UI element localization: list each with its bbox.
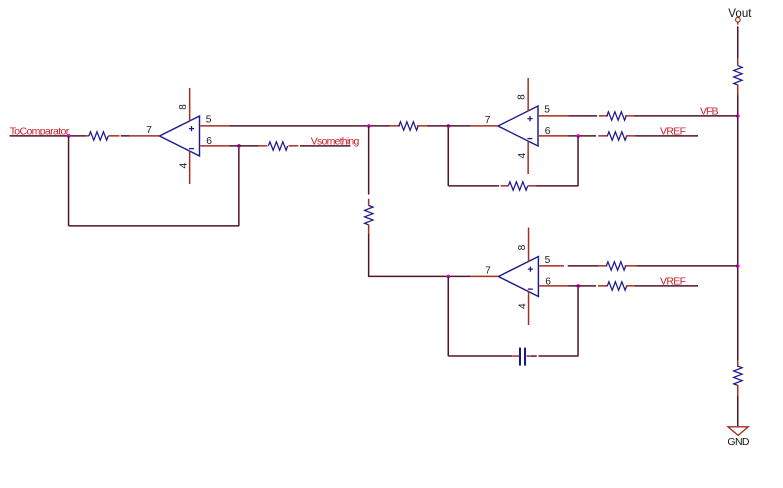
pin 8 power pin — [528, 228, 530, 262]
ground GND — [727, 427, 750, 448]
plus mark — [528, 267, 533, 272]
resistor R5 — [599, 112, 634, 120]
resistor R3 — [390, 122, 427, 130]
pin 5 stub — [539, 265, 564, 267]
wire R10 to pin5 junction — [637, 265, 738, 267]
wire VFB row right segment — [634, 115, 738, 117]
junction U2 pin6 feedback node — [576, 134, 580, 138]
svg-text:7: 7 — [485, 115, 491, 126]
minus mark — [189, 148, 194, 150]
wire U1 feedback bottom rail — [69, 225, 239, 227]
svg-text:4: 4 — [179, 163, 190, 169]
wire R3 to U2 output stub — [427, 125, 470, 127]
svg-text:6: 6 — [545, 126, 551, 137]
svg-text:8: 8 — [517, 244, 528, 250]
junction VFB node — [736, 114, 740, 118]
wire R9 to GND — [737, 395, 739, 426]
resistor R8 — [734, 59, 742, 95]
pin 7 stub — [470, 125, 498, 127]
svg-text:6: 6 — [545, 276, 551, 287]
wire U3 feedback rail right part — [531, 355, 537, 357]
wire U3 feedback right vertical — [577, 286, 579, 356]
junction U1 pin6 node — [237, 144, 241, 148]
resistor R9 — [734, 361, 742, 396]
wire Vsomething tail — [300, 145, 351, 147]
pin 6 stub — [200, 145, 229, 147]
wire U2 feedback right vertical — [577, 136, 579, 186]
pin 6 stub — [539, 285, 568, 287]
wire U2 feedback left vertical — [447, 126, 449, 186]
wire R6 to VREF end — [635, 135, 698, 137]
junction U2 output node — [447, 124, 451, 128]
resistor R1 — [86, 132, 120, 140]
pin 4 power pin — [527, 141, 529, 174]
plus mark — [189, 126, 194, 131]
op-amp U2 — [470, 78, 569, 174]
wire U2 feedback rail right part — [537, 185, 579, 187]
wire U1 feedback left vertical — [68, 136, 70, 226]
junction U1 input node — [67, 134, 71, 138]
svg-text:7: 7 — [485, 265, 491, 276]
svg-text:8: 8 — [517, 94, 528, 100]
resistor R7 — [365, 199, 373, 234]
wire middle branch vertical upper — [368, 126, 370, 195]
pin 8 power pin — [527, 78, 529, 111]
minus mark — [527, 138, 532, 140]
plus mark — [527, 116, 532, 121]
wire U3 feedback left vertical — [447, 277, 449, 357]
wire U1 feedback right vertical — [238, 146, 240, 226]
capacitor C1 — [512, 348, 531, 366]
resistor R2 — [258, 142, 298, 150]
minus mark — [528, 288, 533, 290]
op-amp U3 — [470, 228, 569, 326]
pin 6 stub — [539, 135, 569, 137]
junction U3 output node — [447, 275, 451, 279]
svg-text:5: 5 — [206, 115, 212, 126]
wire U2 pin6 to R6 (through feedback junction) — [569, 135, 597, 137]
pin 8 power pin — [189, 88, 191, 121]
wire R8 down to R9 (through VFB and pin5 junctions) — [737, 95, 739, 361]
junction middle branch node — [367, 124, 371, 128]
resistor R4 — [501, 182, 537, 190]
svg-text:GND: GND — [727, 436, 750, 448]
pin 7 stub — [470, 275, 498, 277]
wire U2 feedback rail left part — [448, 185, 499, 187]
pin 4 power pin — [189, 151, 191, 184]
pin 5 stub — [200, 125, 229, 127]
svg-text:6: 6 — [206, 136, 212, 147]
wire U3 pin6 to R11 (through feedback junction) — [569, 285, 597, 287]
wire U2 pin5 to R5 — [569, 115, 598, 117]
wire U3 pin5 to R10 — [568, 265, 598, 267]
wire R11 to VREF end — [635, 285, 698, 287]
pin 5 stub — [539, 115, 569, 117]
wire ToComparator row — [10, 135, 86, 137]
triangle body — [498, 106, 538, 146]
svg-text:8: 8 — [178, 104, 189, 110]
triangle body — [160, 116, 200, 156]
resistor R10 — [598, 262, 637, 270]
wire U3 feedback rail left part — [448, 355, 512, 357]
svg-text:7: 7 — [146, 125, 152, 136]
svg-text:5: 5 — [545, 255, 551, 266]
wire R1 to U1 output stub — [121, 135, 130, 137]
wire middle branch vertical lower + corner to U3 — [369, 234, 470, 276]
svg-text:4: 4 — [517, 303, 528, 309]
junction U3 pin5 node — [736, 264, 740, 268]
op-amp U1 — [130, 88, 230, 184]
pin 7 stub — [130, 135, 160, 137]
junction U3 pin6 feedback node — [576, 284, 580, 288]
port Vout — [728, 8, 752, 25]
svg-text:5: 5 — [544, 105, 550, 116]
pin 4 power pin — [528, 291, 530, 325]
triangle body — [498, 257, 538, 297]
resistor R6 — [598, 132, 634, 140]
svg-text:4: 4 — [517, 153, 528, 159]
wire top net U1.pin5 to R3 — [230, 125, 390, 127]
wire U1 pin6 to R2 — [230, 145, 259, 147]
resistor R11 — [598, 282, 635, 290]
wire Vout to R8 — [737, 26, 739, 58]
